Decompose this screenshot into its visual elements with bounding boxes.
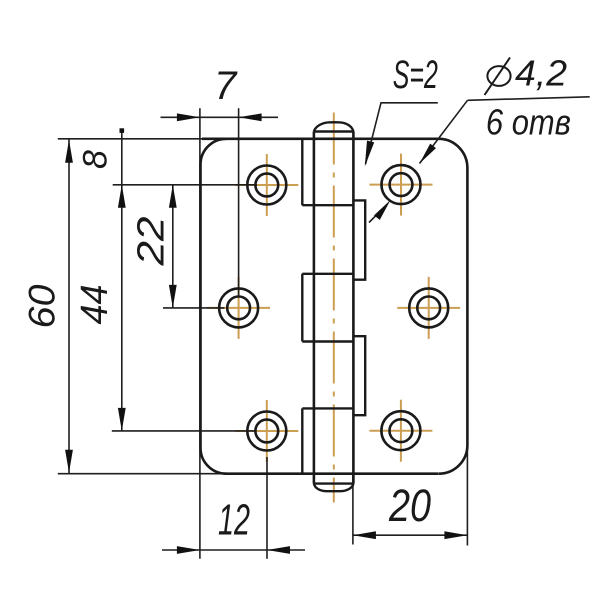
label 4,2	[515, 53, 567, 94]
barrel top cap dome	[314, 122, 354, 131]
extension line right leaf right edge (dim 20)	[466, 446, 468, 546]
extension line right leaf left edge (dim 20)	[352, 474, 354, 545]
hole middle-left centre cross	[207, 277, 270, 339]
top edge of both leaves	[202, 138, 440, 141]
dimension 44 line and arrows (shared line with dim 8)	[118, 128, 126, 431]
hole top-right	[382, 165, 421, 204]
right leaf knuckle box lower	[353, 336, 365, 415]
hole bottom-right	[381, 411, 420, 450]
hole middle-right	[409, 288, 448, 327]
knuckle division line 1	[302, 204, 353, 206]
extension line top edge left (dim 60)	[58, 138, 202, 140]
barrel centre line	[333, 113, 335, 503]
dimension 20 line and arrows	[353, 531, 468, 539]
svg-text:60: 60	[22, 284, 63, 328]
svg-text:6 отв: 6 отв	[486, 102, 571, 143]
extension line bottom edge left (dim 60)	[58, 473, 224, 475]
dimension 22 line and arrows	[169, 185, 177, 308]
dimension 22 text	[131, 217, 173, 267]
extension line bottom hole row (dim 44)	[112, 430, 255, 432]
hole bottom-right centre cross	[369, 400, 432, 462]
svg-text:20: 20	[388, 480, 431, 531]
hole top-left	[247, 166, 286, 205]
dimension 12 text	[218, 496, 250, 545]
label 6 otv	[486, 102, 571, 143]
svg-text:4,2: 4,2	[515, 53, 567, 94]
dimension 7 text	[214, 64, 238, 108]
left leaf outline	[201, 139, 227, 474]
knuckle division line 4	[302, 407, 353, 409]
left leaf bend line segment bottom	[301, 408, 303, 473]
label shelf line	[468, 97, 590, 101]
dimension 60 text	[22, 284, 63, 328]
label diameter symbol	[485, 58, 511, 96]
barrel bottom cap dome	[314, 484, 354, 492]
dimension 44 text	[74, 285, 116, 325]
hole bottom-left centre cross	[235, 400, 298, 462]
dimension 12 line and arrows	[162, 546, 305, 554]
left leaf bend line segment middle	[301, 274, 303, 342]
right leaf outline	[439, 139, 468, 474]
dimension 20 text	[388, 480, 431, 531]
hole top-left centre cross	[235, 154, 298, 216]
svg-text:44: 44	[74, 285, 116, 325]
svg-text:7: 7	[214, 64, 238, 108]
svg-text:22: 22	[131, 217, 173, 267]
hole middle-right centre cross	[397, 277, 460, 339]
label S=2	[393, 53, 438, 97]
hole top-right centre cross	[370, 154, 433, 216]
extension line middle-hole column (dim 7)	[238, 108, 240, 296]
knuckle division line 2	[302, 273, 353, 275]
dimension 60 line and arrows	[65, 139, 73, 474]
knuckle division line 3	[302, 340, 353, 342]
hole bottom-left	[247, 412, 286, 451]
right leaf knuckle box upper	[353, 200, 365, 279]
extension line left vertical (leaf edge / dims 7 and 12)	[199, 108, 201, 559]
extension line bottom-hole column (dim 12)	[266, 457, 268, 559]
hole middle-left	[219, 288, 258, 327]
extension line top hole row (dims 8 44 22)	[113, 184, 257, 186]
bottom edge of both leaves	[224, 472, 438, 475]
left leaf bend line segment top	[301, 139, 303, 205]
svg-text:S=2: S=2	[393, 53, 438, 97]
svg-text:12: 12	[218, 496, 250, 545]
svg-text:8: 8	[77, 150, 115, 169]
barrel body	[314, 132, 354, 484]
dimension 7 line and arrows	[161, 113, 279, 121]
leader diameter 4.2 lower segment with arrow	[369, 200, 391, 223]
extension line middle hole row (dim 22)	[163, 307, 225, 309]
leader S=2	[365, 103, 438, 167]
dimension 8 text	[77, 150, 115, 169]
leader diameter 4.2 upper segment with arrow	[420, 100, 468, 163]
